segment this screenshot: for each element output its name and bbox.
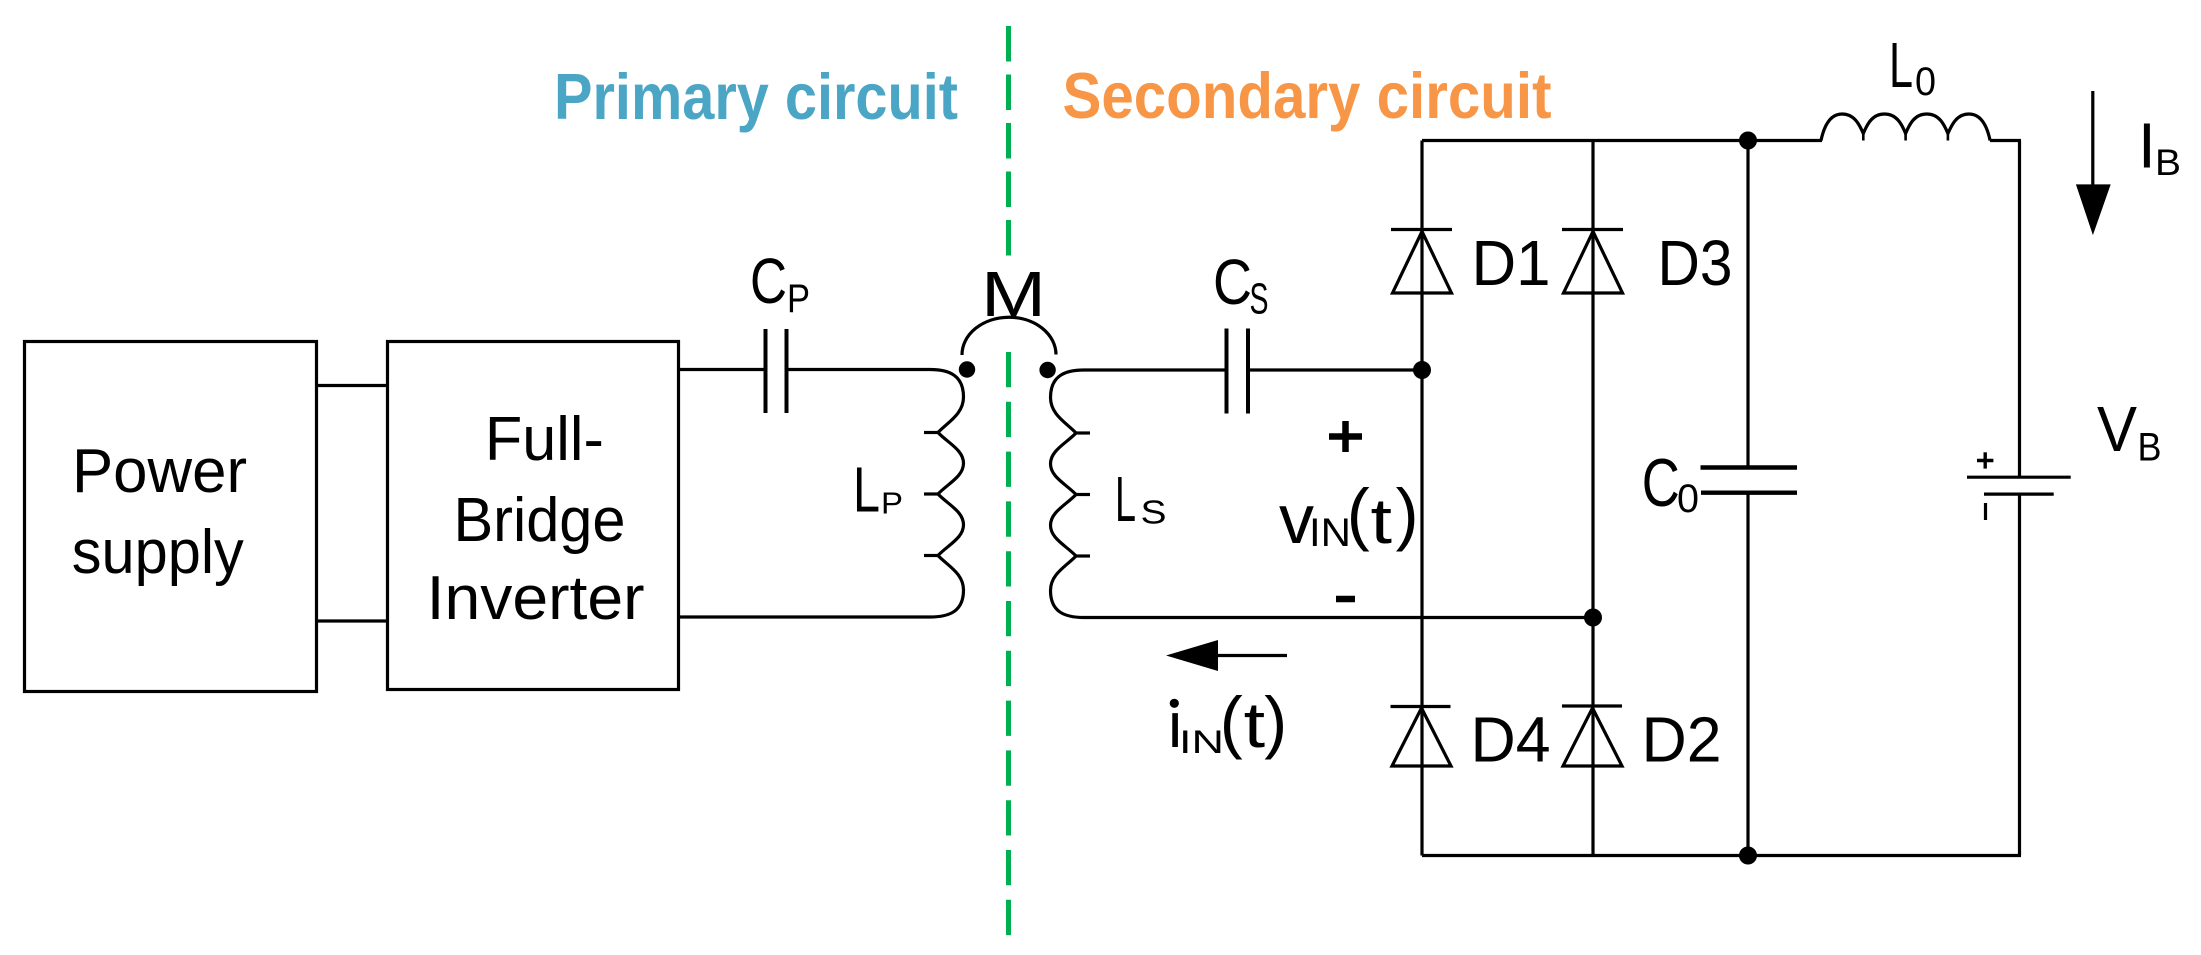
battery VB lower wire: [2018, 494, 2021, 855]
label plus sign of vIN: [1329, 433, 1362, 440]
svg-text:): ): [1264, 683, 1287, 760]
block: Full-Bridge Inverter: [388, 342, 679, 690]
battery minus mark: [1984, 503, 1987, 520]
svg-text:C: C: [1213, 246, 1252, 318]
wire: bridge right vertical: [1591, 141, 1594, 856]
svg-text:IN: IN: [1309, 511, 1351, 555]
svg-text:V: V: [2097, 393, 2137, 465]
block: Power supply: [25, 342, 317, 692]
svg-text:Bridge: Bridge: [454, 485, 626, 555]
svg-text:(: (: [1220, 683, 1243, 760]
label minus sign of vIN: [1336, 596, 1355, 603]
node: top rail C0 junction: [1739, 132, 1757, 150]
svg-text:S: S: [1250, 276, 1269, 324]
svg-text:supply: supply: [72, 517, 245, 587]
diode D2: [1562, 704, 1622, 707]
diode D1: [1391, 228, 1452, 231]
svg-text:IN: IN: [1179, 724, 1224, 760]
svg-text:Primary circuit: Primary circuit: [554, 60, 958, 133]
battery VB short plate: [1984, 493, 2054, 496]
svg-text:Secondary circuit: Secondary circuit: [1063, 59, 1552, 132]
svg-text:D2: D2: [1642, 704, 1722, 776]
current arrow iIN: [1217, 654, 1287, 657]
wire: bridge left vertical: [1420, 141, 1423, 856]
svg-text:L: L: [1889, 29, 1913, 101]
svg-text:I: I: [2138, 110, 2156, 182]
svg-text:M: M: [981, 258, 1046, 330]
node: bottom rail junction at D2 branch: [1584, 609, 1602, 627]
current arrow IB: [2091, 91, 2094, 186]
transformer coupling arc M: [962, 317, 1056, 355]
svg-text:t: t: [1244, 689, 1266, 761]
svg-text:C: C: [1642, 445, 1680, 521]
inductor L0: [1821, 114, 1990, 141]
capacitor CP: [764, 329, 768, 413]
svg-text:Inverter: Inverter: [427, 563, 645, 633]
svg-text:0: 0: [1915, 60, 1936, 104]
battery VB upper wire: [2018, 141, 2021, 478]
wire: bottom rail: [1422, 854, 2021, 857]
svg-text:): ): [1396, 475, 1419, 552]
svg-text:D4: D4: [1471, 704, 1551, 776]
svg-text:S: S: [1141, 494, 1167, 531]
capacitor CS: [1225, 329, 1229, 414]
svg-text:(: (: [1347, 475, 1370, 552]
divider dashed line lower segment: [1006, 352, 1011, 936]
svg-text:Full-: Full-: [485, 404, 604, 474]
inductor LP with top and bottom wires: [679, 370, 964, 618]
battery plus sign: [1977, 459, 1993, 462]
inductor LP cusp ticks: [924, 431, 938, 434]
wire: power supply to inverter bottom: [317, 619, 388, 622]
divider dashed line upper segment: [1006, 26, 1011, 256]
svg-text:0: 0: [1677, 477, 1699, 521]
transformer dot left: [959, 361, 975, 377]
wire: top rail left of L0: [1422, 139, 1822, 142]
transformer dot right: [1039, 362, 1055, 378]
svg-text:B: B: [2138, 426, 2162, 470]
battery VB long plate: [1967, 476, 2071, 479]
diode D3: [1562, 228, 1623, 231]
capacitor C0 branch upper wire: [1746, 141, 1749, 468]
svg-text:Power: Power: [72, 436, 247, 506]
inductor LS cusp ticks: [1076, 431, 1090, 434]
svg-text:L: L: [1115, 463, 1136, 535]
svg-text:P: P: [787, 277, 810, 321]
wire: inverter to capacitor CP: [679, 368, 766, 371]
wire: CS to bridge node: [1248, 368, 1422, 371]
inductor LS with top wire to CS and bottom rail: [1051, 370, 1594, 618]
svg-text:t: t: [1371, 485, 1393, 557]
svg-text:B: B: [2155, 142, 2181, 183]
wire: top rail right of L0: [1990, 139, 2021, 142]
wire: power supply to inverter top: [317, 384, 388, 387]
capacitor C0 branch lower wire: [1746, 493, 1749, 856]
node: CS bridge junction: [1413, 361, 1431, 379]
node: bottom rail C0 junction: [1739, 847, 1757, 865]
svg-text:D1: D1: [1472, 227, 1551, 299]
svg-text:D3: D3: [1658, 227, 1733, 299]
svg-text:P: P: [881, 486, 903, 521]
svg-text:C: C: [750, 245, 787, 317]
diode D4: [1391, 705, 1451, 708]
capacitor C0 plates: [1701, 465, 1798, 469]
svg-text:L: L: [853, 454, 880, 526]
